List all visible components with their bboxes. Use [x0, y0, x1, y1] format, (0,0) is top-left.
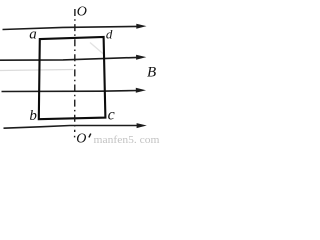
label O' prime mark [89, 134, 91, 138]
field line arrow 4 [4, 123, 147, 128]
svg-text:b: b [29, 108, 37, 124]
svg-text:O: O [76, 131, 86, 146]
field line arrow 2 [0, 55, 146, 61]
svg-text:manfen5. com: manfen5. com [94, 135, 160, 146]
axis terminal dot [74, 136, 76, 138]
field line arrow 3 [2, 88, 147, 93]
rectangular loop abcd [39, 37, 106, 119]
faint watermark line [0, 70, 73, 71]
field line arrow 1 [3, 24, 147, 30]
svg-text:O: O [77, 5, 87, 20]
faint watermark diagonal [90, 43, 104, 55]
svg-text:a: a [29, 27, 37, 43]
axis OO' dash-dot line [74, 9, 76, 132]
svg-text:d: d [106, 27, 113, 42]
svg-text:B: B [147, 65, 156, 81]
svg-text:c: c [108, 106, 115, 123]
